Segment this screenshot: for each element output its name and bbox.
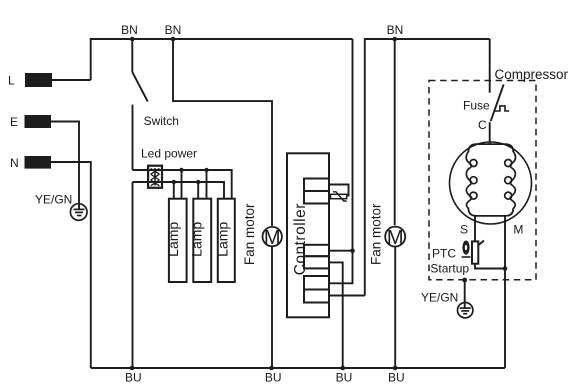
svg-text:BU: BU (265, 371, 282, 385)
lamp 1 (169, 199, 187, 282)
winding coil left (466, 152, 471, 209)
svg-text:M: M (387, 227, 404, 249)
wire S to M junction (475, 264, 505, 269)
connector block top row1 (304, 179, 329, 192)
wire L lead (52, 79, 91, 81)
node bottom fan2 (393, 366, 398, 371)
terminal L (25, 73, 52, 87)
connector block top row2 (304, 191, 329, 204)
wire sensor loop (329, 185, 349, 197)
svg-text:Controller: Controller (292, 203, 309, 275)
svg-text:BU: BU (336, 371, 353, 385)
connector block mid row1 (304, 245, 329, 256)
svg-text:Lamp: Lamp (165, 222, 181, 257)
terminal E (25, 115, 52, 128)
node BN junction fan1 (171, 37, 176, 42)
svg-text:YE/GN: YE/GN (421, 291, 458, 305)
wire M terminal to bottom bus (504, 216, 506, 368)
svg-text:BN: BN (387, 23, 404, 37)
PTC lever (479, 241, 484, 246)
ground symbol right (458, 303, 473, 318)
svg-text:Led power: Led power (141, 147, 197, 161)
node lamp2 live (204, 168, 208, 172)
node bottom controller (341, 366, 346, 371)
node bottom fan1 (269, 366, 274, 371)
svg-text:L: L (8, 74, 15, 88)
node lamp1 live (179, 168, 183, 172)
compressor winding outline (468, 144, 513, 152)
wire E lead to ground (51, 122, 79, 210)
svg-text:E: E (10, 115, 18, 129)
node enclosure ground tap (462, 278, 467, 283)
svg-text:Fan motor: Fan motor (242, 203, 257, 265)
motor M1 (263, 227, 282, 246)
wire bottom bus (91, 367, 505, 369)
wire fan motor 1 return (271, 247, 273, 369)
ground symbol left (70, 204, 87, 221)
compressor enclosure (dashed) (429, 81, 536, 280)
svg-text:Lamp: Lamp (215, 222, 231, 257)
svg-text:Startup: Startup (430, 262, 469, 276)
thermistor RT1 strike (333, 192, 347, 201)
fuse F1 blade (491, 85, 504, 122)
node controller feed junction (350, 248, 355, 253)
fuse F1 thermal element (495, 106, 509, 111)
wire top bus 1 (L to vertical A) (91, 39, 353, 80)
svg-text:Lamp: Lamp (189, 222, 205, 257)
svg-text:C: C (478, 118, 487, 132)
wire lamp neutral drop (132, 182, 134, 368)
svg-text:M: M (513, 222, 523, 236)
wire lamp1 pin left (173, 182, 175, 199)
winding coil right (510, 152, 515, 209)
thermistor RT1 body (331, 194, 347, 198)
wire lamp2 pin right (206, 170, 208, 199)
svg-text:Fuse: Fuse (463, 99, 490, 113)
wire lamp live bus (133, 170, 232, 199)
connector block bottom row1 (304, 276, 329, 290)
svg-text:S: S (460, 222, 468, 236)
wire vertical A (to controller bottom row1) (329, 39, 353, 283)
connector block bottom row2 (304, 290, 329, 303)
svg-text:Switch: Switch (144, 114, 179, 128)
node lamp2 neutral (196, 180, 200, 184)
PTC bead (462, 241, 469, 255)
wire S terminal (474, 216, 476, 242)
wire fan motor 1 feed (173, 39, 272, 226)
svg-text:YE/GN: YE/GN (35, 193, 72, 207)
node BN junction switch (130, 37, 135, 42)
wire fan motor 2 feed (394, 39, 396, 225)
node bottom neutral lamp (130, 366, 135, 371)
motor M2 (385, 227, 405, 247)
svg-text:PTC: PTC (432, 247, 456, 261)
svg-text:BU: BU (125, 371, 142, 385)
wire controller mid row1 to node (329, 250, 353, 252)
lamp 3 (218, 199, 235, 282)
wire lamp2 pin left (197, 182, 199, 199)
wire enclosure to ground (464, 280, 466, 308)
wire controller bottom row2 from vertical B (329, 295, 365, 297)
compressor motor shell (450, 142, 532, 224)
switch blade (132, 72, 147, 101)
wire lamp neutral bus (133, 182, 225, 199)
wire lamp1 pin right (181, 170, 183, 199)
controller U1 (287, 153, 329, 317)
svg-text:Fan motor: Fan motor (369, 203, 384, 265)
svg-text:BN: BN (121, 23, 138, 37)
switch SW1 (131, 39, 133, 72)
node S/M junction (503, 266, 508, 271)
svg-text:M: M (264, 227, 281, 249)
wire controller mid row2 to bottom bus (329, 262, 343, 368)
PTC relay body (472, 241, 478, 263)
svg-text:BN: BN (165, 23, 182, 37)
node BN junction fan2 (392, 37, 397, 42)
svg-text:BU: BU (388, 371, 405, 385)
led power module (148, 166, 162, 188)
wire top bus 2 (B feed) (365, 39, 490, 296)
terminal N (25, 156, 52, 169)
node lamp1 neutral (172, 180, 176, 184)
wire fan motor 2 return (394, 247, 396, 368)
svg-text:Compressor: Compressor (495, 67, 569, 82)
wire C terminal (489, 122, 491, 144)
connector block mid row2 (304, 256, 329, 268)
wire N lead to bottom bus (51, 162, 91, 368)
svg-text:N: N (10, 156, 19, 170)
lamp 2 (193, 199, 211, 282)
wire switch lower (132, 105, 134, 170)
wire compressor feed (489, 39, 491, 93)
